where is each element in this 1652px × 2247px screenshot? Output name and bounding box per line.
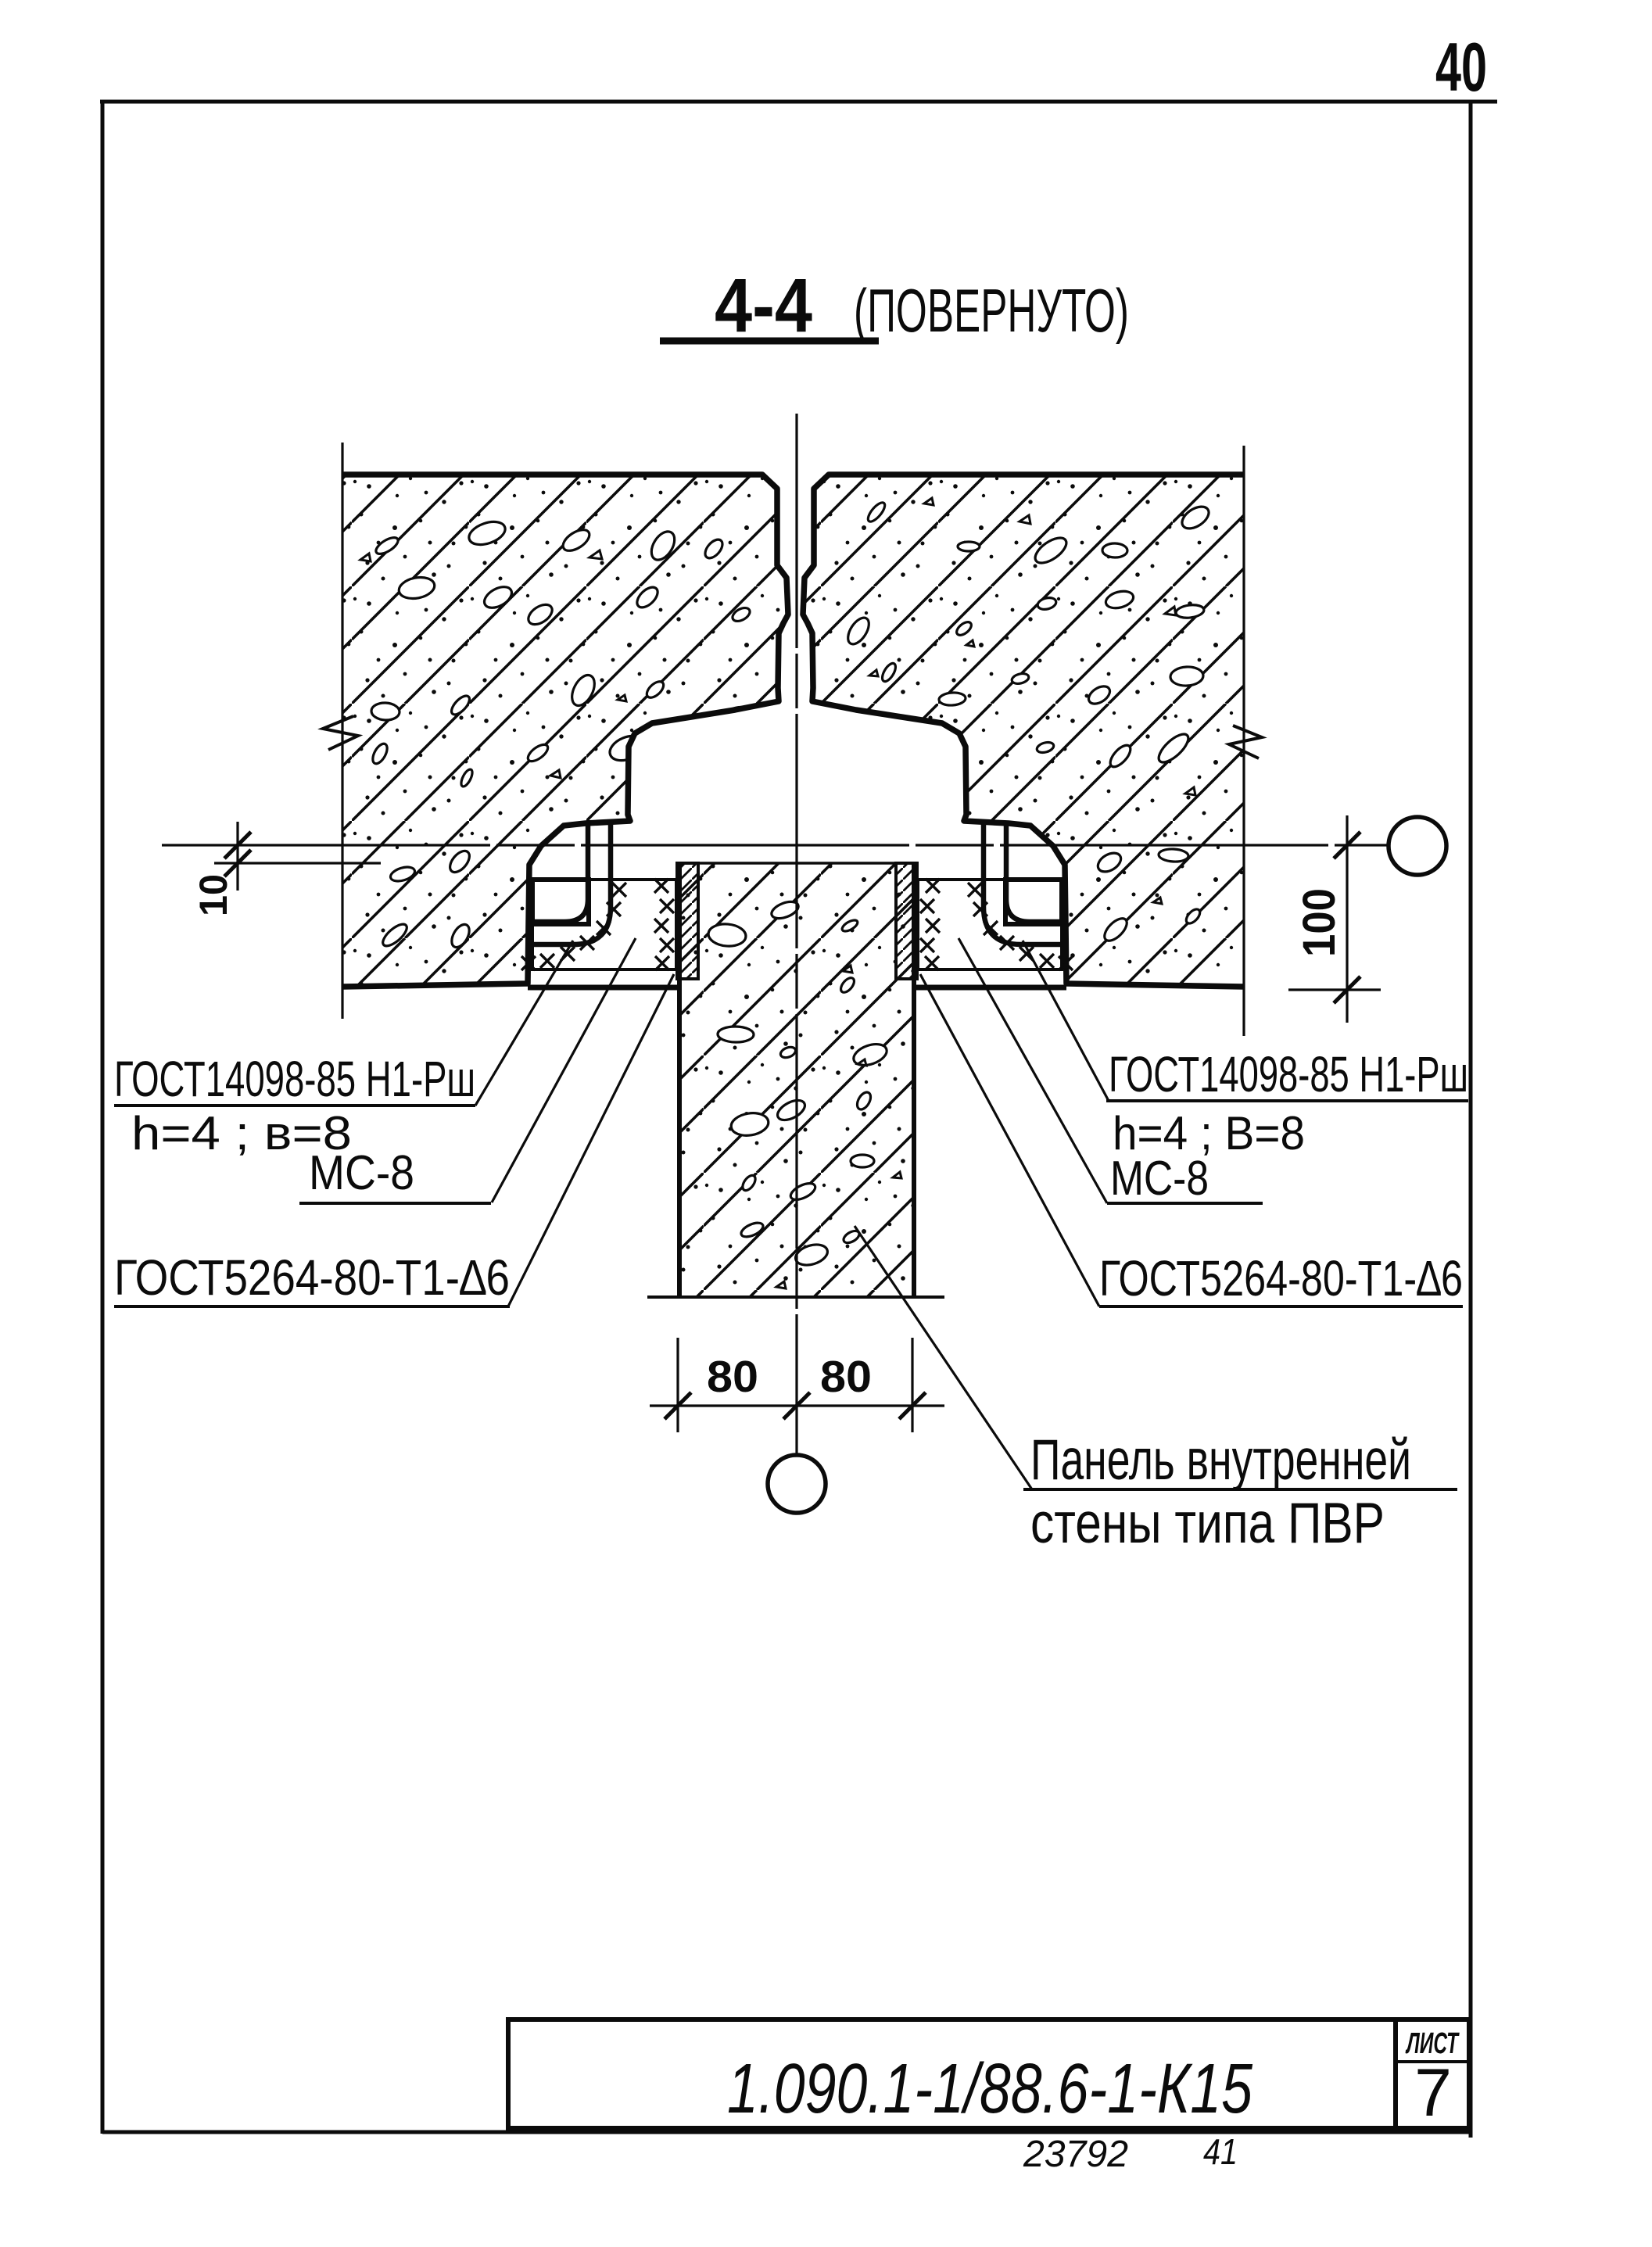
right anchor loop Н1-Рш	[984, 821, 1062, 944]
horizontal axis line	[162, 844, 1388, 846]
svg-text:40: 40	[1435, 28, 1487, 106]
interior wall panel ПВР (hatched)	[679, 863, 914, 1297]
left anchor loop Н1-Рш	[532, 821, 611, 944]
svg-text:ГОСТ14098-85 Н1-Рш: ГОСТ14098-85 Н1-Рш	[114, 1051, 475, 1107]
svg-text:80: 80	[707, 1352, 758, 1402]
left slab break line (witness)	[341, 443, 343, 1019]
wall panel right edge	[912, 863, 916, 1297]
svg-text:МС-8: МС-8	[309, 1146, 414, 1200]
svg-text:Панель внутренней: Панель внутренней	[1030, 1428, 1411, 1492]
page border frame	[100, 102, 1497, 2138]
left slab soffit under pocket	[528, 985, 679, 991]
right weld marks	[920, 879, 1073, 970]
axis circle bottom	[768, 1455, 826, 1513]
wall panel bottom edge	[647, 1296, 944, 1299]
left grout band (fine hatch)	[677, 863, 698, 979]
svg-text:23792: 23792	[1023, 2134, 1128, 2175]
leader to right mortar	[959, 938, 1107, 1203]
leader to wall panel	[855, 1226, 1032, 1489]
right grout band (fine hatch)	[896, 863, 917, 979]
right edge break zigzag	[1229, 726, 1262, 758]
leader to right edge weld	[920, 974, 1099, 1306]
right mortar pocket МС-8	[918, 880, 1062, 969]
vertical centerline of joint	[795, 414, 797, 1454]
right embedded channel МС-8	[1005, 880, 1062, 924]
svg-text:стены типа ПВР: стены типа ПВР	[1030, 1492, 1385, 1555]
left floor slab (hatched concrete)	[342, 475, 788, 987]
left edge break zigzag	[323, 716, 358, 750]
dim 100 line	[1346, 815, 1348, 1023]
left embedded channel МС-8	[532, 880, 589, 924]
dim 80-80 line	[650, 1404, 944, 1407]
right slab soffit under pocket	[914, 985, 1066, 991]
svg-text:10: 10	[192, 874, 235, 916]
leader to left edge weld	[508, 974, 674, 1306]
svg-text:МС-8: МС-8	[1110, 1152, 1209, 1206]
svg-text:7: 7	[1414, 2055, 1452, 2131]
dim 80-80 ticks	[665, 1392, 926, 1419]
svg-text:80: 80	[820, 1352, 872, 1402]
dim 10 extension	[236, 822, 238, 891]
right slab break line (witness)	[1242, 446, 1245, 1036]
dim 10 ticks	[224, 832, 251, 876]
leader to left mortar	[492, 938, 636, 1202]
title underline	[660, 338, 879, 345]
svg-text:(ПОВЕРНУТО): (ПОВЕРНУТО)	[854, 276, 1129, 345]
axis circle right	[1389, 817, 1446, 875]
svg-text:ГОСТ5264-80-Т1-∆6: ГОСТ5264-80-Т1-∆6	[1099, 1250, 1463, 1306]
svg-text:ГОСТ14098-85 Н1-Рш: ГОСТ14098-85 Н1-Рш	[1109, 1046, 1468, 1102]
right floor slab (hatched concrete)	[803, 475, 1244, 987]
svg-text:1.090.1-1/88.6-1-К15: 1.090.1-1/88.6-1-К15	[727, 2050, 1253, 2128]
title block	[508, 2019, 1469, 2128]
left mortar pocket МС-8	[532, 880, 676, 969]
wall panel top edge	[677, 862, 916, 864]
svg-text:4-4: 4-4	[715, 263, 812, 348]
svg-text:41: 41	[1203, 2131, 1238, 2172]
left weld marks	[521, 879, 674, 970]
slab soffit extension	[1288, 988, 1381, 991]
leader to left anchor weld	[475, 941, 573, 1106]
dim 80-80 extensions	[676, 1338, 679, 1432]
dim 10 aux line	[214, 862, 381, 864]
svg-text:100: 100	[1294, 888, 1345, 957]
svg-text:ГОСТ5264-80-Т1-∆6: ГОСТ5264-80-Т1-∆6	[114, 1249, 510, 1306]
leader to right anchor weld	[1023, 941, 1109, 1101]
wall panel left edge	[677, 863, 682, 1297]
dim 100 ticks	[1334, 832, 1360, 1003]
